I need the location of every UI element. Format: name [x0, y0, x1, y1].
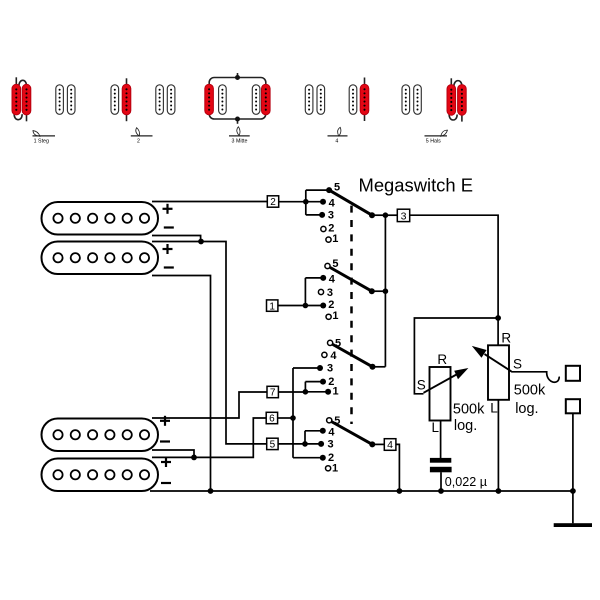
wire coil2+ / junction to terminal 5: [152, 242, 267, 444]
ground symbol: [554, 523, 592, 527]
common bus vertical: [384, 215, 386, 367]
wiper group1: [329, 190, 372, 215]
wire terminal 5 to group4 bracket: [278, 443, 305, 445]
wire stub above bridge coil A: [15, 77, 17, 85]
wire coil2- to ground bus: [152, 276, 211, 492]
svg-text:6: 6: [269, 414, 275, 425]
terminal box 4: [384, 439, 396, 452]
common stub group2: [372, 290, 386, 292]
wire coil3+ to terminal 7: [152, 392, 267, 418]
junction dot bottom: [235, 117, 240, 122]
lever icon 3: [237, 127, 240, 136]
junction terminal7/group3 bracket: [303, 389, 309, 395]
switch shaft dashed line: [350, 206, 353, 424]
svg-text:log.: log.: [515, 401, 538, 417]
svg-text:3: 3: [327, 287, 333, 299]
svg-text:7: 7: [270, 388, 276, 399]
series link arc bottom: [14, 113, 22, 120]
position 4 icon: neck inner coil (red): [305, 78, 369, 145]
svg-text:L: L: [432, 420, 440, 435]
volume pot wiper arrow: [472, 346, 512, 372]
svg-text:1 Steg: 1 Steg: [34, 139, 49, 145]
bridge white coil: [111, 85, 119, 115]
svg-text:3: 3: [328, 439, 334, 451]
wire terminal 4 to ground bus: [396, 444, 400, 491]
bus dot coil2-: [208, 488, 214, 494]
svg-text:3: 3: [327, 363, 333, 375]
tone pot body: [430, 367, 451, 421]
wire stub above neck coil A: [450, 78, 452, 85]
neck red coil A: [447, 85, 456, 116]
wire ground bus to ground symbol: [572, 491, 574, 523]
position 3 icon: both outer coils parallel (red): [205, 73, 270, 144]
neck white coil B: [167, 85, 175, 115]
common dot group3: [370, 364, 376, 370]
switch contacts group 3: [317, 337, 341, 397]
svg-text:500k: 500k: [514, 383, 546, 399]
neck white coil A: [156, 85, 164, 115]
wire volume S to jack with hop: [512, 372, 560, 382]
wire capacitor to ground bus: [440, 472, 442, 491]
coil 2 plus label: [163, 248, 173, 250]
svg-text:5: 5: [270, 440, 276, 451]
lever icon 4: [337, 127, 342, 136]
svg-text:500k: 500k: [453, 401, 485, 417]
svg-text:4: 4: [329, 273, 336, 285]
common dot group2: [369, 288, 375, 294]
bus dot volume L: [496, 488, 502, 494]
through wire: [364, 78, 366, 122]
junction terminal2/group1 bracket: [303, 199, 309, 205]
coil 3 plus label: [160, 420, 170, 422]
svg-text:1: 1: [332, 233, 338, 245]
common stub group3: [373, 366, 386, 368]
wire terminal 2 to group1 bracket: [279, 201, 306, 203]
humbucker 1 coil 1: [42, 202, 159, 235]
position 2 icon: bridge inner coil (red): [111, 78, 175, 144]
stub above: [237, 73, 239, 78]
svg-text:4: 4: [329, 198, 336, 210]
common dot group1: [369, 212, 375, 218]
bridge white coil A: [402, 85, 410, 115]
terminal box 6: [266, 412, 277, 424]
output jack tip terminal: [566, 366, 580, 381]
ground bus wire: [150, 490, 573, 492]
through wire: [126, 78, 128, 121]
lever icon 1: [32, 129, 41, 138]
common stub group1: [372, 214, 385, 216]
wire terminal 3 to volume pot R: [410, 215, 498, 345]
svg-text:S: S: [417, 377, 426, 392]
svg-text:5: 5: [334, 182, 340, 194]
wiper group2: [330, 268, 372, 292]
svg-text:1: 1: [333, 385, 339, 397]
bus dot terminal 4: [397, 488, 403, 494]
svg-text:4: 4: [328, 426, 335, 438]
svg-text:2: 2: [137, 139, 140, 145]
bus dot jack/ground: [570, 488, 576, 494]
neck white coil B: [67, 85, 75, 115]
wire stub below neck coil B: [461, 115, 463, 122]
svg-text:5: 5: [332, 258, 338, 270]
neck red coil: [360, 84, 369, 115]
group4 bracket contacts 3-4: [305, 431, 323, 444]
neck white coil: [252, 85, 260, 115]
humbucker 1 coil 2: [42, 242, 159, 275]
switch contacts group 1: [319, 182, 340, 245]
junction terminal1/group2 bracket: [303, 303, 309, 309]
coil 1 minus label: [164, 226, 174, 228]
red coil A: [12, 84, 21, 115]
svg-text:L: L: [490, 400, 498, 415]
tone pot wiper arrow: [424, 368, 469, 393]
junction terminal6 node: [290, 415, 296, 421]
coil 4 plus label: [161, 461, 171, 463]
group3 bracket contacts 1-2: [305, 382, 328, 392]
net terminal6: group3 c3 to group4 c2: [293, 368, 323, 458]
svg-text:1: 1: [332, 310, 338, 322]
svg-text:3: 3: [328, 210, 334, 222]
series link arc top: [454, 81, 462, 87]
position 5 icon: neck humbucker series (red): [402, 78, 466, 144]
svg-text:4: 4: [330, 350, 337, 362]
terminal box 3: [397, 209, 409, 222]
svg-text:R: R: [501, 331, 511, 346]
junction coil1-/coil2+: [198, 239, 204, 245]
wiper group3: [332, 344, 373, 367]
terminal box 5: [267, 438, 278, 450]
series link arc top: [19, 80, 27, 86]
stub below: [237, 119, 239, 124]
output jack sleeve terminal: [566, 399, 580, 413]
svg-text:4: 4: [387, 439, 393, 451]
neck red coil (outer): [262, 84, 271, 115]
group2 bracket contacts 2-4: [305, 278, 323, 306]
coil 1 plus label: [163, 208, 173, 210]
wire volume pot L to ground bus: [497, 400, 499, 491]
humbucker 2 coil 3: [42, 419, 159, 452]
svg-text:0,022 µ: 0,022 µ: [445, 475, 487, 489]
neck white coil: [349, 85, 357, 115]
bridge red coil: [122, 84, 131, 115]
svg-text:log.: log.: [454, 418, 477, 434]
lever icon 5: [439, 129, 448, 137]
wiper group4: [331, 422, 372, 445]
red coil B: [22, 84, 31, 115]
junction terminal5/group4 bracket: [302, 441, 308, 447]
wire group4 common to terminal 4: [372, 443, 384, 445]
wire coil1- down jog: [152, 236, 201, 242]
junction coil3-/coil4+: [191, 455, 197, 461]
position 1 icon: bridge humbucker series (red): [12, 77, 75, 144]
svg-text:3 Mitte: 3 Mitte: [232, 138, 248, 144]
svg-text:5 Hals: 5 Hals: [426, 138, 441, 144]
svg-text:3: 3: [401, 210, 407, 222]
terminal box 1: [267, 300, 278, 312]
svg-text:S: S: [513, 356, 522, 371]
wire coil1+ to terminal 2: [152, 201, 267, 203]
svg-text:Megaswitch E: Megaswitch E: [359, 174, 473, 195]
wire stub below bridge coil B: [26, 115, 28, 122]
bridge white coil B: [317, 85, 325, 115]
wire terminal 1 to group2 bracket: [278, 305, 306, 307]
wire jack sleeve to ground bus: [572, 413, 574, 491]
bus dot group1: [383, 212, 389, 218]
bridge white coil: [219, 85, 227, 115]
svg-text:2: 2: [270, 197, 276, 208]
coil 2 minus label: [164, 266, 174, 268]
switch contacts group 2: [318, 258, 338, 322]
terminal box 7: [267, 386, 278, 398]
svg-text:1: 1: [332, 463, 338, 475]
parallel loop frame: [209, 78, 266, 120]
wire terminal 6 to node: [278, 417, 293, 419]
bridge white coil A: [305, 85, 313, 115]
bridge white coil B: [414, 85, 422, 115]
terminal box 2: [267, 196, 278, 208]
group1 bracket contacts 3-4-5: [306, 190, 329, 215]
wire terminal 7 to group3 bracket: [278, 391, 305, 393]
wire tone pot L to capacitor: [440, 421, 442, 459]
svg-text:5: 5: [334, 415, 340, 427]
bridge red coil (outer): [205, 84, 214, 115]
svg-text:5: 5: [335, 337, 341, 349]
wire coil4+ / junction to terminal 6: [152, 418, 266, 457]
dot volume R branch: [495, 315, 501, 321]
svg-text:1: 1: [269, 301, 275, 312]
neck red coil B: [458, 85, 467, 116]
svg-text:R: R: [437, 352, 447, 367]
switch contacts group 4: [318, 415, 340, 475]
capacitor C1 plate 2: [430, 467, 452, 473]
series link arc bottom: [449, 114, 457, 121]
humbucker 2 coil 4: [42, 459, 159, 492]
bus dot group2: [383, 288, 389, 294]
wire branch to tone pot S: [414, 318, 498, 394]
capacitor C1 plate 1: [430, 458, 451, 463]
bus dot capacitor: [438, 488, 444, 494]
coil 3 minus label: [160, 440, 170, 442]
neck white coil A: [56, 85, 64, 115]
junction dot top: [235, 75, 240, 80]
svg-text:4: 4: [335, 138, 338, 144]
wire bus to terminal 3: [385, 214, 397, 216]
common dot group4: [369, 441, 375, 447]
volume pot body: [488, 345, 509, 400]
lever icon 2: [135, 127, 140, 136]
wire coil3- down jog: [152, 450, 194, 457]
coil 4 minus label: [161, 482, 171, 484]
